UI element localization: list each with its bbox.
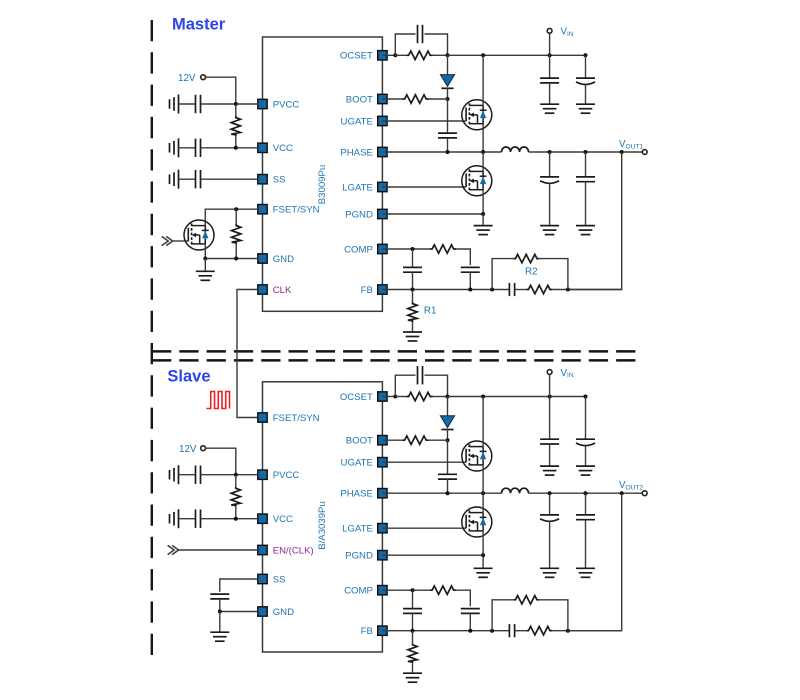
wire UGATE to Q-high gate (out1) bbox=[382, 120, 466, 122]
capacitor feedback series (out2) bbox=[509, 624, 514, 637]
wire VOUT feedback drop (out2) bbox=[568, 493, 622, 631]
U1 pin UGATE bbox=[341, 116, 388, 127]
wire ground to VCC cap bbox=[179, 147, 196, 149]
wire 12V to slave PVCC node bbox=[205, 448, 235, 475]
ground for slave VCC bypass cap bbox=[170, 509, 179, 528]
wire OCSET cap loop left (out2) bbox=[395, 375, 415, 396]
wire GND pin to Q5 source bbox=[205, 258, 257, 260]
svg-text:LGATE: LGATE bbox=[342, 524, 373, 535]
wire slave SS cap to GND row bbox=[219, 599, 221, 612]
resistor R1 (out2) bbox=[408, 643, 417, 663]
wire Q-low drain to phase (out1) bbox=[482, 152, 484, 171]
wire Q-high drain to rail (out1) bbox=[482, 55, 484, 105]
wire vout cap1 to gnd (out2) bbox=[549, 521, 551, 568]
wire C10 to slave PVCC pin bbox=[201, 474, 258, 476]
svg-text:R1: R1 bbox=[424, 306, 437, 317]
svg-text:VIN: VIN bbox=[561, 368, 574, 379]
wire vin cap1 to gnd (out2) bbox=[549, 444, 551, 466]
svg-text:12V: 12V bbox=[179, 444, 197, 455]
svg-text:UGATE: UGATE bbox=[341, 458, 373, 469]
junction pgnd (out1) bbox=[481, 212, 485, 216]
wire C2 to VCC pin bbox=[201, 147, 258, 149]
wire ground to slave VCC cap bbox=[179, 518, 196, 520]
svg-text:B3009Pu: B3009Pu bbox=[317, 165, 328, 204]
capacitor VIN bulk1 (out2) bbox=[540, 439, 559, 444]
12V terminal (master) bbox=[201, 75, 206, 80]
wire comp node to cap1 (out1) bbox=[412, 249, 414, 267]
wire fb to R1 (out2) bbox=[412, 631, 414, 644]
U1 pin FB bbox=[361, 285, 387, 296]
sync clock waveform (red) bbox=[206, 392, 229, 409]
inductor L (out1) bbox=[502, 147, 529, 152]
ground vout cap1 (out1) bbox=[540, 226, 559, 235]
wire vout to cap2 (out1) bbox=[585, 152, 587, 177]
junction PVCC node bbox=[234, 102, 238, 106]
svg-text:PVCC: PVCC bbox=[273, 99, 300, 110]
wire BOOT resistor to node (out2) bbox=[429, 439, 448, 441]
U2 pin FB bbox=[361, 626, 387, 637]
wire vin cap2 to gnd (out1) bbox=[585, 85, 587, 104]
U1 pin PHASE bbox=[340, 147, 387, 158]
ground symbol (master GND) bbox=[196, 271, 215, 280]
wire VIN terminal drop (out1) bbox=[549, 33, 551, 55]
svg-text:FB: FB bbox=[361, 285, 373, 296]
capacitor comp1 (out1) bbox=[403, 267, 422, 272]
U1 pin FSET/SYN bbox=[258, 205, 320, 216]
wire R1 to ground (out2) bbox=[412, 663, 414, 673]
wire C1 to PVCC pin bbox=[201, 103, 258, 105]
wire OCSET resistor to rail (out1) bbox=[433, 54, 448, 56]
wire inductor to VOUT (out1) bbox=[529, 151, 643, 153]
junction comp node (out2) bbox=[411, 588, 415, 592]
wire diode to BOOT node (out2) bbox=[447, 430, 449, 441]
junction BOOT node (out1) bbox=[446, 97, 450, 101]
resistor R10 (slave PVCC-VCC) bbox=[231, 487, 240, 507]
wire fb to R1 (out1) bbox=[412, 290, 414, 303]
bypass capacitor C2 (VCC) bbox=[196, 139, 201, 157]
junction comp node (out1) bbox=[411, 247, 415, 251]
svg-text:VOUT1: VOUT1 bbox=[619, 139, 643, 150]
junction slave PVCC node bbox=[234, 473, 238, 477]
capacitor VOUT bulk2 (out1) bbox=[576, 177, 595, 182]
wire PGND to ground (out1) bbox=[382, 213, 483, 215]
wire VIN rail (out2) bbox=[448, 396, 586, 398]
capacitor VIN bulk1 (out1) bbox=[540, 78, 559, 83]
junction slave GND node bbox=[218, 610, 222, 614]
wire arrow to Q5 gate bbox=[173, 240, 189, 242]
wire LGATE to Q-low gate (out1) bbox=[382, 186, 466, 188]
left border dashed line bbox=[151, 20, 153, 657]
wire vout cap1 to gnd (out1) bbox=[549, 183, 551, 225]
wire rail to vin cap1 (out1) bbox=[549, 55, 551, 78]
capacitor VIN bulk2 (out2) bbox=[576, 439, 595, 445]
capacitor OCSET loop (out2) bbox=[418, 366, 423, 384]
junction GND/Q5 bbox=[203, 257, 207, 261]
wire to slave ground symbol bbox=[219, 612, 221, 632]
junction slave VCC node bbox=[234, 517, 238, 521]
diode D (boot) (out2) bbox=[440, 416, 454, 430]
junction BOOT node (out2) bbox=[446, 438, 450, 442]
wire PVCC node to R3 bbox=[235, 104, 237, 116]
wire R2 branch right (out2) bbox=[539, 600, 568, 631]
svg-text:R2: R2 bbox=[525, 267, 538, 278]
capacitor feedback series (out1) bbox=[509, 283, 514, 296]
U1 pin VCC bbox=[258, 143, 293, 154]
wire FB row left (out1) bbox=[382, 289, 509, 291]
wire BOOT pin to resistor (out1) bbox=[382, 98, 403, 100]
svg-text:FSET/SYN: FSET/SYN bbox=[273, 413, 320, 424]
capacitor VOUT bulk1 (out2) bbox=[540, 515, 559, 521]
U2 pin COMP bbox=[344, 586, 387, 597]
junction fb box left (out1) bbox=[490, 288, 494, 292]
junction rail/Q-high drain (out2) bbox=[481, 395, 485, 399]
bypass capacitor C11 (slave VCC) bbox=[196, 510, 201, 528]
svg-text:LGATE: LGATE bbox=[342, 182, 373, 193]
svg-text:FB: FB bbox=[361, 626, 373, 637]
wire vin cap1 to gnd (out1) bbox=[549, 83, 551, 104]
wire boot cap to phase (out1) bbox=[447, 138, 449, 152]
VOUT2 terminal bbox=[642, 491, 647, 496]
resistor feedback series (out1) bbox=[526, 285, 552, 293]
ground symbol PGND (out1) bbox=[474, 226, 493, 235]
wire vin cap2 to gnd (out2) bbox=[585, 446, 587, 466]
wire boot cap to phase (out2) bbox=[447, 479, 449, 493]
wire comp resistor to cap (out1) bbox=[456, 249, 470, 265]
capacitor comp2 (out1) bbox=[461, 267, 480, 272]
inductor L (out2) bbox=[502, 488, 529, 493]
wire PHASE to inductor (out2) bbox=[382, 492, 501, 494]
capacitor comp1 (out2) bbox=[403, 609, 422, 614]
junction vout cap1 (out2) bbox=[548, 491, 552, 495]
wire OCSET pin to node (out1) bbox=[382, 54, 395, 56]
U1 pin COMP bbox=[344, 244, 387, 255]
resistor R1 (out1) bbox=[408, 302, 417, 322]
soft-start capacitor C3 (SS) bbox=[196, 170, 201, 188]
wire to OCSET resistor (out1) bbox=[395, 54, 406, 56]
resistor R3 (PVCC-VCC) bbox=[231, 116, 240, 136]
U1 pin PGND bbox=[345, 209, 387, 220]
wire FB row right (out2) bbox=[552, 630, 621, 632]
wire Q-high drain to rail (out2) bbox=[482, 397, 484, 447]
wire COMP pin (out2) bbox=[382, 589, 430, 591]
junction GND/R4 bbox=[234, 257, 238, 261]
junction phase/FETs (out1) bbox=[481, 150, 485, 154]
resistor R4 (FSET-GND) bbox=[232, 224, 241, 244]
svg-text:BOOT: BOOT bbox=[346, 94, 373, 105]
wire VIN rail (out1) bbox=[448, 54, 586, 56]
svg-text:PGND: PGND bbox=[345, 209, 373, 220]
resistor comp (out1) bbox=[430, 245, 456, 253]
wire pgnd drop (out2) bbox=[482, 555, 484, 568]
wire comp node to cap1 (out2) bbox=[412, 590, 414, 608]
wire OCSET cap loop left (out1) bbox=[395, 34, 415, 55]
svg-text:PVCC: PVCC bbox=[273, 470, 300, 481]
junction fb/R1 (out2) bbox=[411, 629, 415, 633]
junction VCC node bbox=[234, 146, 238, 150]
junction OCSET node (out1) bbox=[393, 53, 397, 57]
wire comp cap2 to fb (out2) bbox=[469, 613, 471, 630]
VIN terminal (out1) bbox=[547, 28, 552, 33]
resistor OCSET (out1) bbox=[407, 51, 433, 59]
junction phase/bootcap (out1) bbox=[446, 150, 450, 154]
wire FB row right (out1) bbox=[552, 289, 621, 291]
svg-text:B/A3039Pu: B/A3039Pu bbox=[317, 501, 328, 550]
junction fb/cap2 (out1) bbox=[468, 288, 472, 292]
wire ground to PVCC cap bbox=[179, 103, 196, 105]
U1 pin BOOT bbox=[346, 94, 387, 105]
bypass capacitor C10 (slave PVCC) bbox=[196, 466, 201, 484]
junction OCSET/diode (out2) bbox=[446, 395, 450, 399]
wire BOOT node to cap (out1) bbox=[447, 99, 449, 133]
junction rail/VIN (out2) bbox=[548, 395, 552, 399]
resistor BOOT (out1) bbox=[403, 95, 429, 103]
U2 pin UGATE bbox=[341, 458, 388, 469]
separator dashed line lower bbox=[152, 359, 636, 362]
svg-text:PGND: PGND bbox=[345, 551, 373, 562]
svg-text:VCC: VCC bbox=[273, 143, 293, 154]
svg-text:FSET/SYN: FSET/SYN bbox=[273, 205, 320, 216]
wire slave GND pin bbox=[220, 611, 258, 613]
wire R3 to VCC node bbox=[235, 136, 237, 148]
junction fb/cap2 (out2) bbox=[468, 629, 472, 633]
svg-text:OCSET: OCSET bbox=[340, 392, 373, 403]
wire inductor to VOUT (out2) bbox=[529, 492, 643, 494]
U2 pin LGATE bbox=[342, 524, 387, 535]
U1 pin CLK bbox=[258, 285, 292, 296]
svg-text:VCC: VCC bbox=[273, 514, 293, 525]
capacitor bootstrap (out1) bbox=[438, 133, 457, 138]
svg-text:EN/(CLK): EN/(CLK) bbox=[273, 545, 314, 556]
U1 pin PVCC bbox=[258, 99, 300, 110]
wire vout cap2 to gnd (out1) bbox=[585, 182, 587, 226]
junction phase/FETs (out2) bbox=[481, 491, 485, 495]
ground vin cap1 (out2) bbox=[540, 466, 559, 475]
U2 pin GND bbox=[258, 607, 294, 618]
wire comp cap1 to fb (out1) bbox=[412, 272, 414, 289]
svg-text:12V: 12V bbox=[178, 73, 196, 84]
ground for master PVCC bypass cap bbox=[170, 95, 179, 114]
wire VIN terminal drop (out2) bbox=[549, 374, 551, 396]
U2 pin PGND bbox=[345, 551, 387, 562]
junction phase/bootcap (out2) bbox=[446, 491, 450, 495]
U2 pin EN/(CLK) bbox=[258, 545, 314, 556]
wire Q-low drain to phase (out2) bbox=[482, 493, 484, 512]
wire diode to BOOT node (out1) bbox=[447, 88, 449, 99]
svg-text:SS: SS bbox=[273, 574, 286, 585]
bypass capacitor C1 (PVCC) bbox=[196, 95, 201, 113]
wire R2 branch left (out1) bbox=[492, 259, 513, 290]
wire R2 branch right (out1) bbox=[539, 259, 568, 290]
wire rail to diode (out2) bbox=[447, 397, 449, 416]
VIN terminal (out2) bbox=[547, 370, 552, 375]
wire CLK to slave FSET/SYN bbox=[237, 290, 258, 418]
ground vout cap1 (out2) bbox=[540, 568, 559, 577]
U2 pin PHASE bbox=[340, 489, 387, 500]
U2 pin SS bbox=[258, 574, 286, 585]
wire to master ground bbox=[204, 259, 206, 272]
ground vin cap2 (out2) bbox=[576, 466, 595, 475]
wire SS pin to slave SS cap bbox=[220, 579, 258, 592]
junction vout feedback tap (out2) bbox=[620, 491, 624, 495]
svg-text:PHASE: PHASE bbox=[340, 489, 373, 500]
junction vout cap2 (out2) bbox=[584, 491, 588, 495]
junction fb box right (out2) bbox=[566, 629, 570, 633]
wire comp cap1 to fb (out2) bbox=[412, 613, 414, 630]
wire BOOT pin to resistor (out2) bbox=[382, 439, 403, 441]
wire R2 branch left (out2) bbox=[492, 600, 513, 631]
wire series cap to resistor (out2) bbox=[515, 630, 527, 632]
input arrow (master sync in) bbox=[162, 236, 173, 245]
ground symbol (slave GND) bbox=[210, 632, 229, 641]
junction pgnd (out2) bbox=[481, 553, 485, 557]
wire vout cap2 to gnd (out2) bbox=[585, 520, 587, 568]
diode D (boot) (out1) bbox=[440, 75, 454, 89]
wire vout to cap1 (out1) bbox=[549, 152, 551, 177]
svg-text:GND: GND bbox=[273, 254, 294, 265]
svg-text:VIN: VIN bbox=[561, 27, 574, 38]
soft-start capacitor C12 (slave SS) bbox=[210, 594, 229, 599]
junction vout feedback tap (out1) bbox=[620, 150, 624, 154]
VOUT1 terminal bbox=[642, 150, 647, 155]
ground symbol PGND (out2) bbox=[474, 568, 493, 577]
wire arrow to EN/(CLK) pin bbox=[179, 549, 258, 551]
U1 pin OCSET bbox=[340, 51, 387, 62]
wire OCSET pin to node (out2) bbox=[382, 396, 395, 398]
wire R1 to ground (out1) bbox=[412, 322, 414, 332]
resistor BOOT (out2) bbox=[403, 436, 429, 444]
svg-text:Master: Master bbox=[172, 15, 226, 33]
ground vin cap2 (out1) bbox=[576, 104, 595, 113]
ground R1 (out1) bbox=[403, 332, 422, 341]
MOSFET Q-low (out1) bbox=[462, 166, 492, 196]
input arrow (slave enable) bbox=[168, 545, 179, 554]
ground R1 (out2) bbox=[403, 673, 422, 682]
capacitor bootstrap (out2) bbox=[438, 474, 457, 479]
svg-text:GND: GND bbox=[273, 607, 294, 618]
IC U1 uP9003B body bbox=[263, 37, 383, 311]
resistor comp (out2) bbox=[430, 586, 456, 594]
wire PHASE to inductor (out1) bbox=[382, 151, 501, 153]
wire Q5 source to GND row bbox=[204, 244, 206, 259]
wire slave PVCC node to R10 bbox=[235, 475, 237, 487]
svg-text:UGATE: UGATE bbox=[341, 116, 373, 127]
wire LGATE to Q-low gate (out2) bbox=[382, 527, 466, 529]
wire Q-low source to pgnd (out2) bbox=[482, 531, 484, 555]
wire Q-low source to pgnd (out1) bbox=[482, 190, 484, 214]
svg-text:COMP: COMP bbox=[344, 586, 373, 597]
svg-text:PHASE: PHASE bbox=[340, 147, 373, 158]
svg-text:BOOT: BOOT bbox=[346, 436, 373, 447]
capacitor OCSET loop (out1) bbox=[418, 25, 423, 43]
junction OCSET node (out2) bbox=[393, 395, 397, 399]
ground for master SS cap bbox=[170, 170, 179, 189]
ground vin cap1 (out1) bbox=[540, 104, 559, 113]
wire R4 to GND node bbox=[235, 244, 237, 259]
junction vout cap2 (out1) bbox=[584, 150, 588, 154]
U2 pin OCSET bbox=[340, 392, 387, 403]
wire 12V to PVCC node bbox=[205, 77, 235, 104]
capacitor VOUT bulk2 (out2) bbox=[576, 515, 595, 520]
capacitor VOUT bulk1 (out1) bbox=[540, 177, 559, 183]
MOSFET Q-high (out2) bbox=[462, 441, 492, 471]
ground vout cap2 (out2) bbox=[576, 568, 595, 577]
svg-text:OCSET: OCSET bbox=[340, 51, 373, 62]
wire vout to cap2 (out2) bbox=[585, 493, 587, 515]
wire rail to vin cap2 (out1) bbox=[585, 55, 587, 78]
resistor R2 (out1) bbox=[513, 254, 539, 262]
wire rail to vin cap1 (out2) bbox=[549, 397, 551, 440]
wire comp cap2 to fb (out1) bbox=[469, 272, 471, 289]
wire pgnd drop (out1) bbox=[482, 214, 484, 225]
ground for slave PVCC bypass cap bbox=[170, 465, 179, 484]
junction fb box right (out1) bbox=[566, 288, 570, 292]
wire ground to SS cap bbox=[179, 178, 196, 180]
MOSFET Q5 bbox=[184, 220, 214, 250]
capacitor VIN bulk2 (out1) bbox=[576, 78, 595, 84]
wire comp resistor to cap (out2) bbox=[456, 590, 470, 606]
junction fb box left (out2) bbox=[490, 629, 494, 633]
junction vout cap1 (out1) bbox=[548, 150, 552, 154]
wire rail to diode (out1) bbox=[447, 55, 449, 74]
U2 pin VCC bbox=[258, 514, 293, 525]
wire FSET node to R4 bbox=[235, 209, 237, 224]
U2 pin BOOT bbox=[346, 436, 387, 447]
wire BOOT resistor to node (out1) bbox=[429, 98, 448, 100]
IC U2 uP9303A/B body bbox=[263, 382, 383, 652]
svg-text:CLK: CLK bbox=[273, 285, 292, 296]
wire ground to slave PVCC cap bbox=[179, 474, 196, 476]
wire OCSET cap loop right (out2) bbox=[425, 375, 448, 396]
svg-text:Slave: Slave bbox=[167, 368, 210, 386]
wire PGND to ground (out2) bbox=[382, 554, 483, 556]
resistor feedback series (out2) bbox=[526, 627, 552, 635]
wire C3 to SS pin bbox=[201, 178, 258, 180]
wire OCSET cap loop right (out1) bbox=[425, 34, 448, 55]
junction OCSET/diode (out1) bbox=[446, 53, 450, 57]
wire UGATE to Q-high gate (out2) bbox=[382, 461, 466, 463]
wire R10 to slave VCC node bbox=[235, 507, 237, 519]
svg-text:COMP: COMP bbox=[344, 244, 373, 255]
junction rail/Q-high drain (out1) bbox=[481, 53, 485, 57]
separator dashed line upper bbox=[152, 350, 636, 353]
resistor OCSET (out2) bbox=[407, 392, 433, 400]
wire C11 to slave VCC pin bbox=[201, 518, 258, 520]
junction fb/R1 (out1) bbox=[411, 288, 415, 292]
wire COMP pin (out1) bbox=[382, 248, 430, 250]
wire FSET/SYN to Q5 drain bbox=[205, 209, 257, 225]
junction rail/VIN (out1) bbox=[548, 53, 552, 57]
wire series cap to resistor (out1) bbox=[515, 289, 527, 291]
U1 pin GND bbox=[258, 254, 294, 265]
wire BOOT node to cap (out2) bbox=[447, 440, 449, 474]
wire Q-high source to phase (out2) bbox=[482, 465, 484, 493]
U1 pin SS bbox=[258, 175, 286, 186]
MOSFET Q-high (out1) bbox=[462, 100, 492, 130]
U2 pin FSET/SYN bbox=[258, 413, 320, 424]
svg-text:SS: SS bbox=[273, 175, 286, 186]
junction rail/cap (out1) bbox=[584, 53, 588, 57]
resistor R2 (out2) bbox=[513, 596, 539, 604]
wire to OCSET resistor (out2) bbox=[395, 396, 406, 398]
svg-text:VOUT2: VOUT2 bbox=[619, 480, 643, 491]
junction FSET node bbox=[234, 207, 238, 211]
wire VOUT feedback drop (out1) bbox=[568, 152, 622, 290]
wire OCSET resistor to rail (out2) bbox=[433, 396, 448, 398]
U2 pin PVCC bbox=[258, 470, 300, 481]
wire Q-high source to phase (out1) bbox=[482, 124, 484, 152]
wire vout to cap1 (out2) bbox=[549, 493, 551, 515]
12V terminal (slave) bbox=[201, 446, 206, 451]
